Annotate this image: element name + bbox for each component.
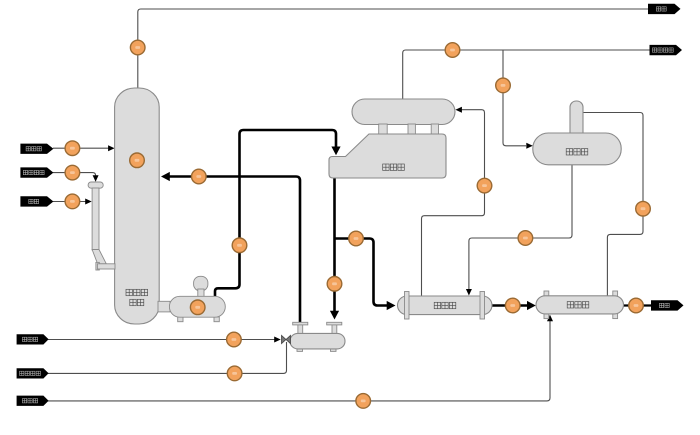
vessel: evaporator body	[329, 134, 446, 178]
stream flag product out	[651, 300, 684, 310]
wire: tower top vent to tail-gas flag	[138, 9, 648, 88]
sparger pipe with top cap at tower bottom left	[88, 182, 115, 270]
vessel: circulation pump / blower drum	[169, 276, 225, 321]
indicator circle 11 steam header	[445, 43, 460, 58]
indicator circle 7 pump riser	[232, 238, 247, 253]
pipe: heater to preheater (thick, arrow right)	[492, 301, 536, 310]
wire: syngas inlet to tower (arrow right)	[53, 145, 115, 151]
stream flag LP steam out	[650, 45, 683, 55]
pipe: preheater outlet to product flag (thick)	[624, 304, 652, 306]
vessel: heater shell	[398, 292, 493, 320]
vessel: evaporator top drum	[352, 99, 455, 125]
vessel: condensate drum with nozzles and inlet valve	[282, 322, 346, 351]
wire: evaporator drum steam line to LP-steam flag	[403, 50, 650, 100]
wire: heater outlet up and back to evaporator drum (arrow into drum)	[422, 107, 485, 296]
wire: cold water up into preheater bottom (arrow up)	[48, 315, 553, 401]
vessel: waste heat recovery tower	[115, 88, 160, 324]
indicator circle 12 deaerator feed	[496, 78, 511, 93]
tower outlet stub to circulation pump	[158, 301, 170, 312]
pipe: condensate drum up and into tower (thick, arrow left)	[161, 172, 300, 324]
wire: deaerator chimney over to preheater top	[583, 113, 643, 296]
indicator circle 4 flue gas	[65, 194, 80, 209]
indicator circle 2 syngas	[65, 141, 80, 156]
wire: compressed air line joining valve branch	[48, 342, 287, 373]
evaporator legs	[379, 124, 439, 135]
stream flag compressed air	[17, 368, 49, 378]
indicator circle 6 tower feed	[192, 169, 207, 184]
indicator circle 3 steam inlet	[65, 165, 80, 180]
wire: deaerator bottom down into heater top (arrow down)	[466, 165, 572, 296]
indicator circle 16 heater-preheater	[505, 298, 520, 313]
wire: flue-gas inlet into sparger pipe (arrow right)	[53, 199, 92, 205]
indicator circle 20 cold water	[356, 394, 371, 409]
indicator circle 1 vent line	[130, 40, 145, 55]
vessel: deaerator chimney	[570, 101, 583, 141]
indicator circle 13 heater return	[477, 178, 492, 193]
stream flag steam inlet	[20, 167, 53, 177]
indicator circle 14 deaerator outlet	[518, 231, 533, 246]
wire: steam branch down to deaerator inlet	[503, 50, 533, 149]
stream flag cold water	[17, 396, 49, 406]
indicator circle 17 product line	[629, 298, 644, 313]
wire: desalted water to drum inlet valve (arrow right)	[48, 337, 281, 343]
wire: steam inlet down into sparger pipe cap (arrow down)	[53, 173, 99, 182]
pipe: branch from blowdown to heater inlet (thick, arrow right)	[335, 239, 396, 311]
pipe: circulation pump discharge up to evaporator (thick, arrow down)	[215, 130, 341, 296]
stream flag he-cheng-qi (syngas)	[20, 144, 53, 154]
indicator circle 18 desalted water	[227, 332, 242, 347]
vessel: preheater shell with nozzles	[536, 291, 624, 319]
indicator circle 10 heater branch	[349, 231, 364, 246]
stream flag tail gas out	[648, 4, 681, 14]
indicator circle 15 chimney line	[636, 201, 651, 216]
indicator circle 5 on tower	[130, 153, 145, 168]
indicator circle 19 compressed air	[227, 366, 242, 381]
stream flag desalted water	[17, 334, 49, 344]
indicator circle 8 on pump	[190, 300, 205, 315]
pipe: evaporator bottom blowdown to condensate drum (thick, arrow down)	[330, 178, 339, 320]
stream flag flue gas	[20, 196, 53, 206]
vessel: deaerator	[533, 133, 621, 165]
indicator circle 9 blowdown	[327, 277, 342, 292]
